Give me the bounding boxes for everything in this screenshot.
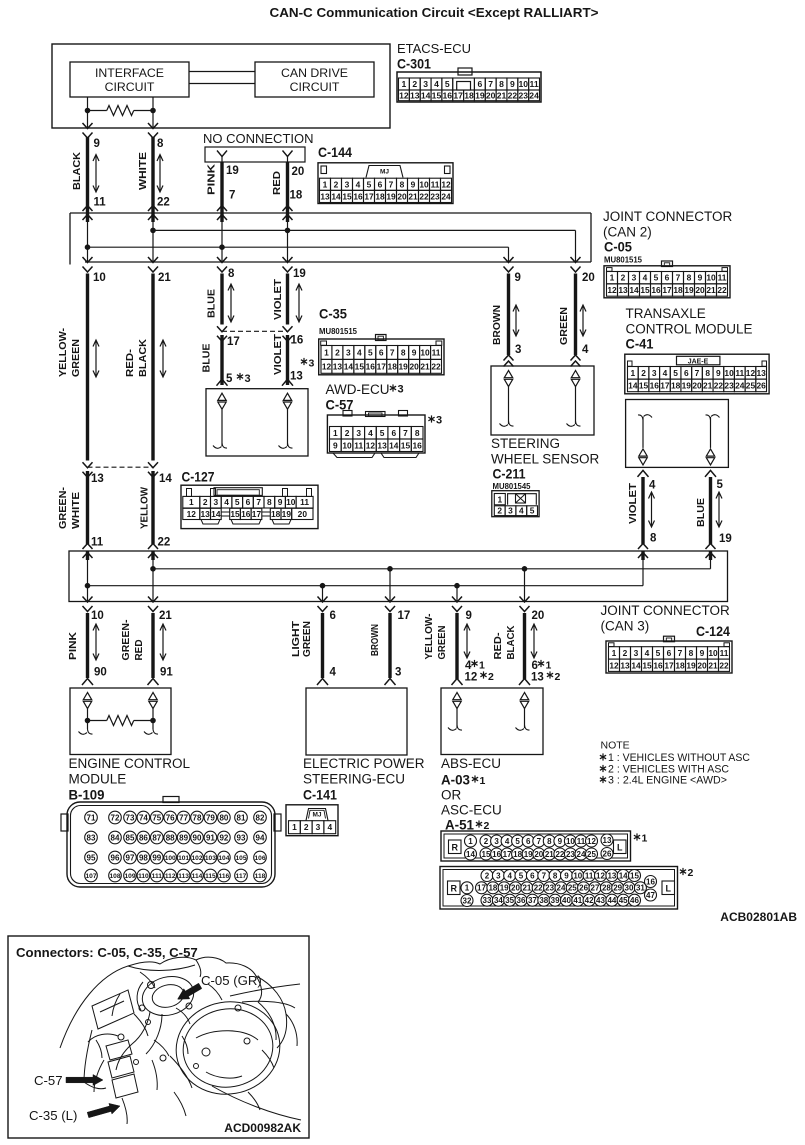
svg-text:MU801545: MU801545	[493, 482, 532, 491]
svg-text:13: 13	[377, 440, 387, 450]
svg-text:92: 92	[219, 833, 228, 842]
svg-text:MU801515: MU801515	[604, 256, 643, 265]
svg-text:21: 21	[545, 850, 554, 859]
svg-text:10: 10	[93, 272, 106, 284]
svg-text:RED: RED	[133, 639, 145, 660]
CAN2 top entry pin11	[83, 206, 93, 263]
svg-text:18: 18	[271, 509, 281, 519]
svg-text:1: 1	[465, 884, 470, 893]
svg-text:98: 98	[139, 853, 148, 862]
svg-text:4: 4	[505, 837, 510, 846]
pin 14	[159, 473, 172, 485]
svg-text:9: 9	[411, 179, 416, 189]
svg-text:71: 71	[87, 813, 96, 822]
svg-text:8: 8	[400, 179, 405, 189]
svg-text:25: 25	[568, 884, 577, 893]
svg-text:107: 107	[85, 873, 96, 880]
CAN3 bottom exit pin21	[148, 597, 158, 612]
svg-text:4: 4	[507, 871, 512, 880]
svg-text:C-301: C-301	[397, 57, 431, 72]
label C-35	[319, 307, 347, 322]
svg-text:C-05: C-05	[604, 240, 632, 255]
svg-text:16: 16	[443, 90, 453, 100]
svg-text:1: 1	[402, 79, 407, 89]
arrow VIOLET transaxle	[649, 492, 655, 527]
svg-text:13: 13	[320, 191, 330, 201]
label AWD-ECU *3	[326, 382, 404, 397]
note line *3	[600, 775, 727, 787]
svg-text:20: 20	[511, 884, 520, 893]
svg-text:112: 112	[165, 873, 176, 880]
svg-text:1: 1	[292, 822, 297, 832]
connector C-127	[181, 485, 318, 528]
label *2 near A-51 connector	[680, 867, 694, 879]
CAN3 bottom exit pin9	[452, 597, 462, 612]
CAN3 inner drop pin9	[456, 586, 458, 602]
svg-text:12: 12	[746, 368, 756, 378]
steering wheel sensor box	[491, 366, 594, 435]
svg-text:6: 6	[378, 179, 383, 189]
svg-text:14: 14	[629, 285, 639, 295]
svg-text:21: 21	[420, 361, 430, 371]
pin 20 below CAN3 abs	[532, 610, 545, 622]
svg-text:14: 14	[211, 509, 221, 519]
arrow BROWN sensor	[513, 305, 519, 336]
svg-text:15: 15	[355, 361, 365, 371]
svg-text:14: 14	[619, 871, 628, 880]
svg-text:94: 94	[256, 833, 265, 842]
connector C-05	[604, 261, 730, 298]
svg-text:21: 21	[703, 380, 713, 390]
svg-text:8: 8	[547, 837, 552, 846]
svg-text:16: 16	[653, 660, 663, 670]
svg-text:8: 8	[267, 497, 272, 507]
CAN2 top entry pin18	[283, 206, 293, 263]
svg-text:7: 7	[390, 347, 395, 357]
label GREEN-WHITE	[57, 486, 82, 529]
svg-text:1: 1	[323, 179, 328, 189]
svg-text:90: 90	[193, 833, 202, 842]
svg-text:6: 6	[330, 610, 336, 622]
svg-text:13: 13	[603, 836, 612, 845]
wire PINK CAN3 pin10 to ECM pin90	[86, 613, 89, 678]
svg-text:8: 8	[553, 871, 558, 880]
svg-text:41: 41	[573, 896, 582, 905]
svg-text:14: 14	[389, 440, 399, 450]
svg-text:MU801515: MU801515	[319, 327, 358, 336]
svg-text:21: 21	[522, 884, 531, 893]
label C-124	[696, 624, 730, 639]
svg-text:73: 73	[126, 813, 135, 822]
ECM terminal pin90	[79, 693, 93, 735]
pin 17	[227, 336, 240, 348]
svg-text:RED-: RED-	[124, 348, 136, 377]
svg-text:BLUE: BLUE	[201, 344, 213, 373]
pin 91	[160, 667, 173, 679]
wire LIGHT GREEN CAN3 pin6 to EPS pin4	[321, 613, 324, 678]
svg-text:1: 1	[546, 660, 552, 672]
label C-141	[303, 788, 337, 803]
svg-text:1: 1	[479, 660, 485, 672]
pin 10 below CAN2	[93, 272, 106, 284]
arrow BLUE upper	[228, 284, 234, 322]
svg-text:20: 20	[486, 90, 496, 100]
label C-127	[182, 470, 215, 485]
label BROWN sensor	[491, 305, 503, 345]
svg-text:8: 8	[401, 347, 406, 357]
CAN2 bottom exit pin10	[83, 257, 93, 272]
svg-text:2: 2	[497, 506, 502, 516]
svg-text:4: 4	[434, 79, 439, 89]
svg-text:3: 3	[398, 384, 404, 396]
wire YELLOW C-127 pin14 to CAN3 pin22	[151, 471, 154, 544]
svg-text:16: 16	[291, 335, 304, 347]
EPS entry pin3	[385, 679, 396, 686]
arrow YELLOW-GREEN	[93, 340, 99, 377]
svg-text:1: 1	[468, 837, 473, 846]
CAN2 bus line lower	[85, 245, 508, 262]
ABS entry left	[452, 679, 463, 686]
svg-text:24: 24	[529, 90, 539, 100]
svg-text:21: 21	[158, 272, 171, 284]
svg-text:118: 118	[255, 873, 266, 880]
svg-text:13: 13	[620, 660, 630, 670]
label VIOLET upper	[272, 278, 284, 320]
wire WHITE ETACS pin8 to CAN2 pin22	[151, 137, 154, 207]
arrow RED-BLACK ABS	[531, 624, 537, 658]
svg-text:93: 93	[237, 833, 246, 842]
wire BLUE transaxle pin5 to CAN3 pin19	[709, 477, 712, 544]
svg-text:4: 4	[357, 347, 362, 357]
svg-text:3: 3	[632, 273, 637, 283]
svg-text:14: 14	[331, 191, 341, 201]
label MU801515 C-35	[319, 327, 358, 336]
ECM entry pin90	[82, 679, 93, 686]
svg-text:15: 15	[401, 440, 411, 450]
svg-text:(CAN 3): (CAN 3)	[601, 619, 650, 634]
svg-text:24: 24	[735, 380, 745, 390]
label *1 near A-03 connector	[634, 833, 648, 845]
svg-text:1 : VEHICLES WITHOUT ASC: 1 : VEHICLES WITHOUT ASC	[608, 752, 750, 764]
svg-text:16: 16	[366, 361, 376, 371]
svg-text:3: 3	[436, 415, 442, 427]
svg-text:4: 4	[465, 660, 472, 672]
pin 21 below CAN2	[158, 272, 171, 284]
svg-text:23: 23	[518, 90, 528, 100]
arrow GREEN-RED	[160, 624, 166, 660]
svg-text:23: 23	[430, 191, 440, 201]
svg-text:19: 19	[686, 660, 696, 670]
svg-text:5: 5	[445, 79, 450, 89]
label ETACS-ECU	[397, 41, 471, 56]
svg-text:20: 20	[582, 272, 595, 284]
svg-text:12: 12	[609, 660, 619, 670]
svg-text:12: 12	[187, 509, 197, 519]
svg-text:7: 7	[389, 179, 394, 189]
pin 8 below CAN2	[228, 268, 235, 280]
svg-text:BROWN: BROWN	[369, 624, 381, 656]
pin 22 CAN3	[158, 537, 171, 549]
svg-text:104: 104	[218, 855, 229, 862]
label C-144	[318, 145, 352, 160]
svg-text:3 : 2.4L ENGINE <AWD>: 3 : 2.4L ENGINE <AWD>	[608, 775, 727, 787]
svg-text:3: 3	[316, 822, 321, 832]
svg-text:40: 40	[562, 896, 571, 905]
svg-text:GREEN-: GREEN-	[120, 619, 132, 660]
CAN3 top entry pin22	[148, 544, 158, 602]
no-connection stub pin20	[283, 151, 293, 163]
svg-text:ABS-ECU: ABS-ECU	[441, 756, 501, 771]
svg-text:16: 16	[646, 877, 655, 886]
svg-text:18: 18	[464, 90, 474, 100]
label C-41	[626, 337, 654, 352]
svg-text:9: 9	[698, 273, 703, 283]
svg-text:L: L	[665, 883, 671, 893]
svg-text:4: 4	[330, 667, 337, 679]
svg-text:89: 89	[179, 833, 188, 842]
figure label C-05 (GR) with arrow	[178, 973, 262, 999]
svg-text:43: 43	[596, 896, 605, 905]
label MU801545	[493, 482, 532, 491]
svg-text:7: 7	[678, 648, 683, 658]
svg-text:15: 15	[640, 285, 650, 295]
svg-text:14: 14	[344, 361, 354, 371]
svg-text:91: 91	[160, 667, 173, 679]
svg-text:ACB02801AB: ACB02801AB	[720, 910, 797, 924]
svg-text:8: 8	[687, 273, 692, 283]
svg-text:C-35: C-35	[319, 307, 347, 322]
pin 5 transaxle	[717, 479, 724, 491]
svg-text:3: 3	[494, 837, 499, 846]
pin 21 below CAN3	[159, 610, 172, 622]
svg-text:22: 22	[719, 660, 729, 670]
svg-text:20: 20	[298, 509, 308, 519]
electric power steering ECU box	[306, 688, 407, 755]
connector C-211	[492, 491, 539, 517]
ABS entry right	[519, 679, 530, 686]
connector C-57	[327, 411, 425, 458]
svg-text:105: 105	[235, 855, 246, 862]
svg-text:26: 26	[756, 380, 766, 390]
joint connector CAN3 block outline	[69, 551, 728, 602]
CAN3 bus line lower	[85, 583, 643, 588]
svg-text:19: 19	[386, 191, 396, 201]
svg-text:A-51: A-51	[445, 818, 474, 833]
svg-text:10: 10	[419, 179, 429, 189]
ABS terminal left	[448, 693, 462, 731]
svg-text:MODULE: MODULE	[69, 772, 127, 787]
svg-text:Connectors: C-05, C-35, C-57: Connectors: C-05, C-35, C-57	[16, 945, 198, 960]
svg-text:17: 17	[398, 610, 411, 622]
pin 4*1 12*2 ABS	[465, 660, 495, 684]
svg-text:OR: OR	[441, 788, 462, 803]
EPS entry pin4	[317, 679, 328, 686]
pin 17 below CAN3	[398, 610, 411, 622]
label VIOLET lower	[272, 333, 284, 375]
ETACS pin 8 exit crossing	[148, 123, 158, 138]
CAN3 top entry pin19 blue	[706, 544, 716, 569]
svg-text:WHEEL SENSOR: WHEEL SENSOR	[491, 452, 600, 467]
svg-text:21: 21	[708, 660, 718, 670]
svg-text:20: 20	[534, 850, 543, 859]
svg-text:34: 34	[494, 896, 503, 905]
svg-text:19: 19	[524, 850, 533, 859]
CAN2 bottom exit pin21	[148, 257, 158, 272]
svg-text:11: 11	[300, 497, 309, 507]
svg-text:74: 74	[139, 813, 148, 822]
svg-text:1: 1	[631, 368, 636, 378]
svg-text:8: 8	[157, 138, 164, 150]
label A-51 *2	[445, 818, 490, 833]
svg-text:3: 3	[356, 428, 361, 438]
svg-text:9: 9	[510, 79, 515, 89]
svg-text:24: 24	[557, 884, 566, 893]
svg-text:31: 31	[636, 884, 645, 893]
label JOINT CONNECTOR (CAN 2)	[603, 209, 733, 240]
svg-text:20: 20	[292, 166, 305, 178]
svg-text:15: 15	[630, 871, 639, 880]
svg-text:1: 1	[612, 648, 617, 658]
label LIGHT GREEN	[290, 620, 313, 657]
svg-text:CAN DRIVE: CAN DRIVE	[281, 66, 348, 80]
label C-05	[604, 240, 632, 255]
ECM terminal pin91	[144, 693, 158, 735]
connector C-35	[319, 335, 444, 375]
svg-text:CONTROL MODULE: CONTROL MODULE	[626, 322, 753, 337]
svg-text:R: R	[451, 842, 458, 852]
label *3 near C-57	[428, 415, 442, 427]
svg-text:22: 22	[419, 191, 429, 201]
connector C-144	[318, 163, 453, 204]
svg-text:29: 29	[613, 884, 622, 893]
svg-text:17: 17	[664, 660, 674, 670]
connector C-141	[286, 805, 338, 836]
label GREEN sensor	[558, 307, 570, 345]
svg-text:13: 13	[531, 672, 544, 684]
svg-text:32: 32	[463, 896, 472, 905]
svg-text:1: 1	[497, 494, 502, 504]
svg-text:21: 21	[159, 610, 172, 622]
arrow VIOLET upper	[296, 284, 302, 322]
svg-text:4: 4	[327, 822, 332, 832]
svg-text:26: 26	[579, 884, 588, 893]
svg-text:C-211: C-211	[493, 467, 526, 482]
sensor terminal pin3	[500, 371, 514, 427]
svg-text:13: 13	[618, 285, 628, 295]
svg-text:C-35 (L): C-35 (L)	[29, 1108, 77, 1123]
svg-text:14: 14	[628, 380, 638, 390]
svg-text:STEERING-ECU: STEERING-ECU	[303, 772, 405, 787]
no-connection box	[205, 147, 305, 162]
arrow PINK ECM	[93, 624, 99, 660]
svg-text:B-109: B-109	[69, 788, 105, 803]
svg-text:108: 108	[109, 873, 120, 880]
svg-text:109: 109	[124, 873, 135, 880]
svg-text:3: 3	[423, 79, 428, 89]
svg-text:11: 11	[735, 368, 744, 378]
C-127 crossing pin13	[83, 462, 93, 477]
CAN3 inner drop pin20	[524, 569, 526, 602]
label B-109	[69, 788, 105, 803]
svg-text:AWD-ECU: AWD-ECU	[326, 382, 390, 397]
label YELLOW	[139, 487, 151, 529]
CAN3 bottom exit pin17	[385, 597, 395, 612]
svg-text:3: 3	[345, 179, 350, 189]
wire BROWN CAN2 pin9 to sensor pin3	[507, 274, 510, 356]
arrow YELLOW-GREEN ABS	[464, 624, 470, 658]
label ACB02801AB	[720, 910, 797, 924]
svg-text:33: 33	[483, 896, 492, 905]
CAN2 bottom exit pin9	[504, 257, 514, 272]
svg-text:GREEN: GREEN	[558, 307, 570, 345]
connector C-301	[397, 68, 541, 102]
svg-text:10: 10	[91, 610, 104, 622]
svg-text:17: 17	[364, 191, 374, 201]
wire GREEN-RED CAN3 pin21 to ECM pin91	[151, 613, 154, 678]
svg-text:2: 2	[203, 497, 208, 507]
label ELECTRIC POWER STEERING-ECU	[303, 756, 425, 787]
svg-text:102: 102	[191, 855, 202, 862]
svg-text:22: 22	[158, 537, 171, 549]
svg-text:ETACS-ECU: ETACS-ECU	[397, 41, 471, 56]
svg-text:28: 28	[602, 884, 611, 893]
svg-text:18: 18	[388, 361, 398, 371]
svg-text:12: 12	[596, 871, 605, 880]
svg-text:C-05 (GR): C-05 (GR)	[201, 973, 262, 988]
arrow GREEN sensor	[580, 305, 586, 336]
svg-text:5: 5	[673, 368, 678, 378]
svg-text:5: 5	[654, 273, 659, 283]
svg-text:21: 21	[497, 90, 507, 100]
svg-text:13: 13	[333, 361, 343, 371]
label VIOLET transaxle	[627, 482, 639, 524]
svg-text:STEERING: STEERING	[491, 436, 560, 451]
svg-text:3: 3	[496, 871, 501, 880]
C-35 crossing pin16	[283, 326, 293, 341]
pin 7	[229, 190, 235, 202]
pin 10 below CAN3	[91, 610, 104, 622]
svg-text:22: 22	[534, 884, 543, 893]
svg-text:BLUE: BLUE	[695, 498, 707, 527]
svg-text:5: 5	[519, 871, 524, 880]
svg-text:25: 25	[587, 850, 596, 859]
svg-text:22: 22	[555, 850, 564, 859]
sensor entry crossing pin4	[571, 355, 581, 367]
arrow WHITE	[157, 155, 163, 193]
svg-text:10: 10	[724, 368, 734, 378]
AWD-ECU box	[206, 389, 308, 456]
svg-text:97: 97	[126, 853, 135, 862]
svg-text:7: 7	[403, 428, 408, 438]
wire RED-BLACK CAN3 pin20 to ABS	[523, 613, 526, 679]
pin 16	[291, 335, 304, 347]
CAN3 top entry pin11	[83, 544, 93, 602]
ECM entry pin91	[148, 679, 159, 686]
svg-text:C-144: C-144	[318, 145, 352, 160]
svg-text:14: 14	[421, 90, 431, 100]
label ABS-ECU	[441, 756, 501, 771]
pin 19 CAN3	[719, 533, 732, 545]
svg-text:GREEN-: GREEN-	[57, 486, 69, 529]
ETACS-ECU block outline	[52, 44, 390, 128]
svg-text:19: 19	[719, 533, 732, 545]
svg-text:115: 115	[205, 873, 216, 880]
svg-text:96: 96	[111, 853, 120, 862]
svg-text:106: 106	[254, 855, 265, 862]
svg-text:45: 45	[619, 896, 628, 905]
pin 11 CAN3	[91, 537, 104, 549]
svg-text:JOINT CONNECTOR: JOINT CONNECTOR	[603, 209, 733, 224]
